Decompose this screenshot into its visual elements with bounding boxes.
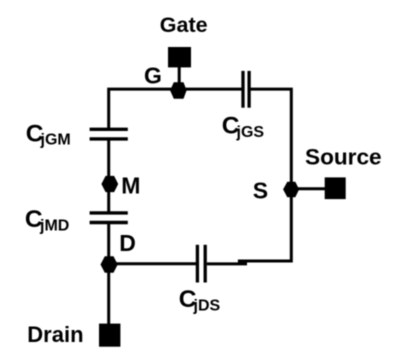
wire top-left and left vertical to CjGM (109, 89, 242, 129)
node S (283, 182, 299, 198)
capacitor CjGM (90, 129, 128, 139)
label CjGS (222, 113, 265, 141)
svg-text:G: G (144, 63, 162, 89)
source terminal square (325, 177, 346, 199)
svg-text:jMD: jMD (39, 218, 69, 235)
wire bottom-right jog, right vertical and top-right (238, 89, 291, 261)
wire bottom segment right of CjDS (207, 262, 247, 265)
wire gate stub (178, 66, 181, 89)
wire left vertical CjGM to CjMD (107, 139, 110, 213)
svg-text:D: D (119, 230, 136, 256)
svg-text:jDS: jDS (193, 297, 221, 314)
svg-text:Source: Source (305, 144, 382, 169)
label CjDS (179, 286, 221, 314)
wire source stub (290, 187, 326, 190)
svg-text:Gate: Gate (160, 13, 208, 37)
label CjGM (26, 121, 71, 149)
node M (101, 176, 118, 192)
node D (101, 256, 118, 272)
wire bottom from D to CjDS (109, 262, 197, 265)
label CjMD (25, 206, 69, 235)
drain terminal square (99, 324, 120, 347)
svg-text:S: S (253, 177, 268, 203)
capacitor CjDS (197, 245, 205, 283)
node G (170, 82, 187, 99)
capacitor CjGS (243, 71, 249, 108)
svg-text:jGS: jGS (236, 124, 265, 141)
gate terminal square (168, 47, 191, 67)
wire left vertical CjMD through D to drain square (107, 223, 110, 325)
capacitor CjMD (90, 213, 128, 223)
svg-text:M: M (121, 173, 140, 199)
svg-text:jGM: jGM (40, 132, 71, 149)
svg-text:Drain: Drain (27, 322, 83, 347)
